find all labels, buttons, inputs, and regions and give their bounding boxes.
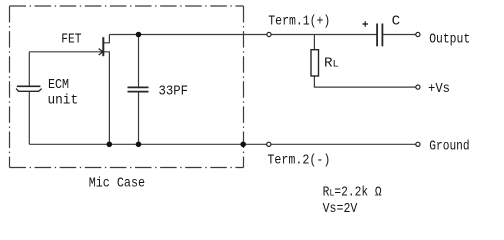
svg-text:C: C (392, 14, 401, 30)
svg-text:unit: unit (48, 92, 79, 108)
svg-text:ECM: ECM (48, 77, 69, 93)
svg-text:Term.1(+): Term.1(+) (268, 13, 330, 29)
svg-text:33PF: 33PF (159, 84, 189, 100)
svg-text:RL: RL (324, 55, 339, 71)
svg-text:FET: FET (61, 32, 81, 48)
svg-text:Mic Case: Mic Case (89, 176, 145, 192)
svg-text:+Vs: +Vs (428, 81, 450, 97)
svg-text:Term.2(-): Term.2(-) (267, 153, 330, 169)
svg-text:RL=2.2k Ω: RL=2.2k Ω (323, 184, 382, 200)
svg-text:Ground: Ground (429, 138, 469, 154)
svg-text:Output: Output (429, 32, 470, 48)
svg-text:Vs=2V: Vs=2V (323, 201, 358, 217)
